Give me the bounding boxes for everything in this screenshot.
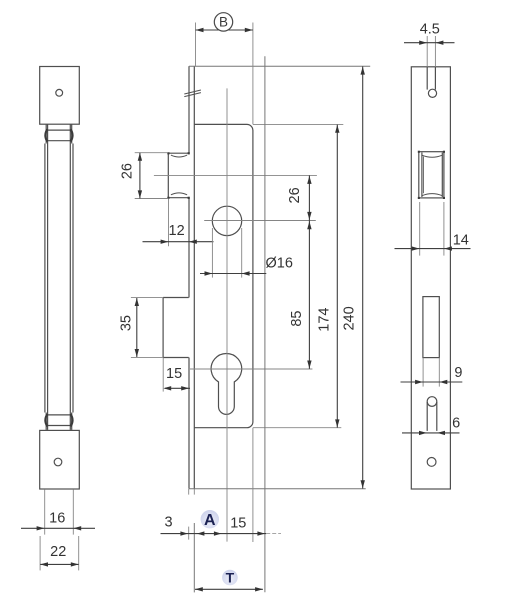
dimension 4.5 — [427, 36, 435, 67]
faceplate — [189, 66, 194, 489]
dimension Ø16 — [212, 228, 241, 278]
bottom roller end caps — [45, 414, 47, 426]
bottom screw hole — [427, 458, 436, 467]
lock body outline — [194, 124, 253, 427]
keyhole pin slot — [427, 397, 437, 407]
svg-text:12: 12 — [169, 223, 185, 239]
svg-text:3: 3 — [165, 515, 173, 531]
top reference line (faceplate top) — [189, 65, 370, 67]
bottom bracket stub lines — [45, 413, 47, 430]
euro profile cylinder cutout — [211, 353, 242, 414]
svg-text:14: 14 — [453, 233, 469, 249]
dimension 26 right + 85 (shared line) — [308, 175, 310, 369]
left rail inner line left — [47, 124, 49, 430]
long vertical reference line T right — [264, 56, 266, 592]
svg-text:35: 35 — [118, 315, 134, 331]
label circle A — [201, 510, 219, 528]
roller cutout — [419, 152, 444, 198]
dimension 6 — [402, 432, 460, 434]
svg-text:9: 9 — [454, 365, 462, 381]
svg-text:22: 22 — [50, 544, 66, 560]
dimension 174 — [336, 125, 338, 428]
svg-text:B: B — [219, 15, 228, 30]
dimension 9 — [423, 358, 439, 387]
bottom dimension line 3 / A / 15 — [189, 489, 195, 540]
top bracket stub lines — [45, 124, 47, 143]
latch bolt (side, through faceplate) — [168, 153, 188, 198]
left rail outer line left — [44, 144, 46, 413]
body bottom reference line — [253, 427, 341, 429]
dimension B (top) — [196, 23, 253, 125]
svg-text:174: 174 — [317, 307, 333, 331]
dimension 15 left (deadbolt throw) — [162, 358, 164, 392]
roller cutout corner dots — [418, 151, 445, 199]
dimension 16 (left view) — [45, 489, 74, 534]
faceplate break marks — [184, 90, 201, 97]
label circle T — [222, 570, 238, 586]
left rail inner line right — [69, 124, 71, 430]
svg-text:15: 15 — [230, 516, 246, 532]
left view top screw hole — [56, 89, 63, 96]
svg-text:Ø16: Ø16 — [265, 256, 292, 272]
label circle B — [214, 13, 232, 31]
left rail outer line right — [72, 144, 74, 413]
dimension 12 — [168, 199, 170, 246]
left view top plate — [40, 67, 80, 125]
center line euro cylinder horizontal — [190, 368, 312, 370]
dimension 14 — [420, 202, 444, 256]
dimension 26 left (latch) — [135, 153, 169, 199]
svg-text:16: 16 — [49, 511, 65, 527]
svg-text:85: 85 — [289, 311, 305, 327]
follower hole Ø16 — [212, 206, 241, 235]
svg-text:26: 26 — [287, 187, 303, 203]
svg-text:4.5: 4.5 — [420, 22, 440, 38]
center line vertical — [226, 88, 228, 541]
deadbolt slot — [423, 297, 439, 358]
left view bottom plate — [40, 430, 80, 489]
dimension 240 — [362, 66, 364, 488]
top roller end caps — [45, 129, 47, 141]
deadbolt (side, through faceplate) — [163, 298, 189, 358]
dimension 35 (deadbolt) — [131, 298, 163, 358]
right plate outline — [411, 67, 450, 489]
svg-text:A: A — [204, 512, 216, 529]
roller — [421, 153, 423, 198]
center line latch horizontal — [154, 174, 317, 176]
center line follower hole horizontal — [204, 220, 316, 222]
svg-text:240: 240 — [342, 306, 358, 330]
top roller bar — [48, 129, 71, 131]
svg-text:15: 15 — [166, 366, 182, 382]
svg-text:T: T — [226, 570, 235, 586]
svg-text:6: 6 — [452, 416, 460, 432]
latch corner dots — [167, 152, 190, 199]
body right edge lower extension — [252, 428, 254, 542]
slot relief hole — [428, 89, 436, 97]
svg-text:26: 26 — [120, 163, 136, 179]
faceplate bottom reference line — [189, 488, 366, 490]
body top reference line — [253, 123, 343, 125]
top saw slot — [426, 67, 428, 90]
dimension T — [195, 588, 263, 590]
left view bottom screw hole — [54, 458, 62, 466]
bottom roller bar — [48, 414, 71, 416]
dimension 22 (left view) — [40, 536, 79, 570]
